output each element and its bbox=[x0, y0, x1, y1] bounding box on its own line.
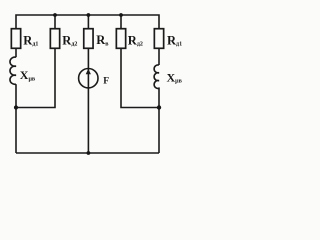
wire lead between Rd1 right and coil bbox=[158, 49, 160, 66]
resistor Rd1 left box bbox=[11, 29, 20, 49]
wire right branch lower down to bottom rail bbox=[158, 87, 160, 153]
wire center branch top lead bbox=[87, 15, 89, 29]
node top center branch bbox=[87, 13, 91, 17]
wire branch4 lower, corner right into right branch bbox=[121, 49, 159, 108]
wire lead between Rd1 left and coil bbox=[15, 49, 17, 58]
resistor Rv center box bbox=[84, 29, 93, 49]
node bottom center bbox=[87, 151, 91, 155]
wire branch2 lower, corner left into left branch bbox=[16, 49, 55, 108]
wire branch4 top lead bbox=[120, 15, 122, 29]
node left T-junction bbox=[14, 105, 18, 109]
wire center branch down through source to bottom rail bbox=[87, 49, 89, 154]
node top branch2 bbox=[53, 13, 57, 17]
wire top rail with end corners bbox=[16, 15, 159, 29]
wire bottom rail bbox=[16, 152, 159, 154]
inductor X_mu_v right coil bbox=[154, 65, 159, 89]
arrow of source F bbox=[86, 69, 91, 75]
resistor Rd2 left box bbox=[50, 29, 59, 49]
inductor X_mu_v left coil bbox=[10, 57, 16, 84]
resistor Rd2 right box bbox=[116, 29, 125, 49]
wire left branch lower down to bottom rail bbox=[15, 84, 17, 153]
source F circle (MMF source) bbox=[79, 69, 98, 88]
resistor Rd1 right box bbox=[154, 29, 163, 49]
wire branch2 top lead bbox=[54, 15, 56, 29]
node top branch4 bbox=[119, 13, 123, 17]
node right T-junction bbox=[157, 105, 161, 109]
svg-text:F: F bbox=[103, 77, 109, 87]
